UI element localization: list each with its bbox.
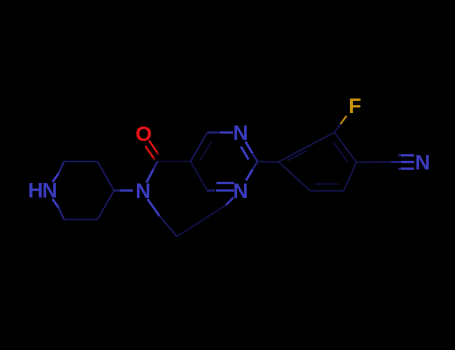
bond N1=C2 with inner hash (246, 142, 253, 154)
bond N6-C7 (down right), bright near label then dark (148, 199, 160, 216)
svg-text:O: O (136, 123, 152, 146)
bond C2-N3 (253, 162, 258, 170)
bond C2-phenyl C1' (258, 161, 279, 164)
wire pip C4-C5 (98, 191, 115, 220)
bond C8-N3 bright stub (226, 198, 234, 206)
wire pip C3-C4 (98, 162, 115, 191)
svg-text:HN: HN (28, 180, 56, 203)
bond C3'-F (335, 124, 341, 132)
wire pip C2-C3 (64, 161, 98, 163)
wire benzene C4'-C5' (344, 162, 357, 191)
bond C4'-C nitrile (356, 161, 390, 163)
wire benzene C3'-C4' (335, 132, 357, 162)
wire pip C6-N dark half (59, 208, 65, 220)
wire pip N-C2 bright half (53, 174, 59, 183)
bond pip C4 to amide N (114, 190, 120, 192)
bond C4a-C4 (very dark) (191, 162, 208, 191)
bond C7-C8 rising edge (177, 205, 226, 237)
carbonyl C=O double bond (145, 141, 158, 160)
piperidine ring (64, 162, 114, 220)
pyrimidine: bond C8a-N1 (207, 132, 220, 134)
wire benzene C2'-C3' (307, 132, 335, 147)
wire benzene C5'-C6' (310, 190, 343, 192)
bond C5-C4a (very dark) (158, 161, 191, 163)
bond C4a=C8a (191, 133, 208, 162)
wire benzene inner hash 2 (315, 183, 339, 185)
benzene ring (279, 132, 357, 191)
wire benzene inner hash 3 (288, 151, 307, 161)
svg-text:F: F (349, 95, 362, 118)
bond C4a=C8a inner hash (200, 141, 212, 160)
bond C4=N3 horizontal with hash above (207, 190, 215, 192)
svg-text:N: N (233, 180, 248, 203)
wire benzene inner hash 1 (334, 143, 348, 162)
wire pip N-C2 dark half (59, 162, 65, 174)
bond C5-N6 (154, 162, 158, 170)
wire pip N-C6 bright half (53, 199, 59, 208)
nitrile triple bond (391, 161, 401, 163)
wire benzene C1'-C2' (279, 147, 307, 162)
wire pip C5-C6 (64, 219, 98, 221)
wire benzene C6'-C1' (279, 162, 311, 191)
svg-text:N: N (415, 152, 430, 175)
